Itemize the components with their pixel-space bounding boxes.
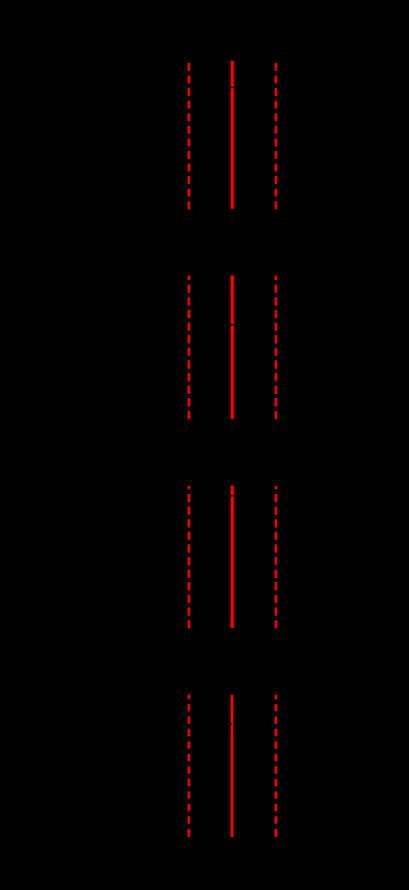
antialias halo underlays for all red lines <box>187 63 191 71</box>
subplot 4: left dashed interval line <box>188 695 190 699</box>
subplot 1: right dashed interval line <box>275 63 277 71</box>
subplot 2: left dashed interval line <box>188 276 190 281</box>
subplot 1: left dashed interval line <box>188 63 190 71</box>
subplot 4: right dashed interval line <box>275 695 277 699</box>
subplot 3: left dashed interval line <box>188 486 190 489</box>
subplot 2: right dashed interval line <box>275 276 277 281</box>
subplot 4: black trace crossing notch on solid line <box>230 723 232 725</box>
subplot 3: solid center vertical line <box>231 486 234 629</box>
subplot 2: black trace crossing gap on solid line <box>230 324 236 325</box>
subplot 2: solid center vertical line <box>231 276 234 419</box>
subplot 1: black trace crossing gap on solid line <box>230 87 236 89</box>
subplot 3: right dashed interval line <box>275 486 277 489</box>
subplot 1: solid center vertical line <box>231 61 234 209</box>
subplot 4: solid center vertical line <box>231 695 233 837</box>
subplot 3: black trace crossing gap on solid line <box>230 495 236 497</box>
subplot 3: faint red bridge inside gap <box>232 495 233 497</box>
